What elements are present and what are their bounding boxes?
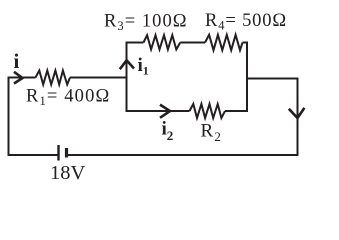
svg-text:R2: R2 — [201, 121, 223, 145]
wire inner right vertical — [246, 42, 248, 113]
wire middle branch left — [127, 110, 190, 112]
wire bottom right — [68, 154, 299, 156]
wire right connector — [246, 78, 299, 80]
wire inner left vertical — [126, 42, 128, 113]
svg-text:18V: 18V — [50, 162, 86, 184]
wire bottom left — [8, 154, 58, 156]
arrow current i — [14, 72, 23, 84]
arrow current i2 — [160, 105, 170, 118]
wire R1 branch right — [70, 77, 127, 79]
resistor R2 — [190, 104, 226, 118]
resistor R3 — [144, 35, 181, 49]
battery B1 long plate — [57, 145, 59, 161]
svg-text:R1= 400Ω: R1= 400Ω — [26, 87, 110, 109]
wire top branch middle stub — [180, 42, 205, 44]
resistor R1 — [36, 71, 71, 85]
resistor R4 — [205, 35, 243, 50]
arrow current i1 — [120, 60, 134, 69]
svg-text:i2: i2 — [162, 119, 174, 144]
wire top branch left stub — [127, 42, 144, 44]
battery B1 short plate — [65, 148, 68, 158]
wire left vertical — [8, 77, 10, 157]
arrow current down right branch — [289, 108, 305, 118]
wire top branch right stub — [243, 42, 249, 44]
wire R1 branch left — [9, 77, 36, 79]
svg-text:R3= 100Ω: R3= 100Ω — [104, 12, 188, 34]
wire middle branch right — [225, 110, 247, 112]
svg-text:i: i — [14, 49, 20, 73]
svg-text:R4= 500Ω: R4= 500Ω — [205, 11, 287, 33]
svg-text:i1: i1 — [138, 55, 149, 78]
wire right vertical — [297, 78, 299, 157]
